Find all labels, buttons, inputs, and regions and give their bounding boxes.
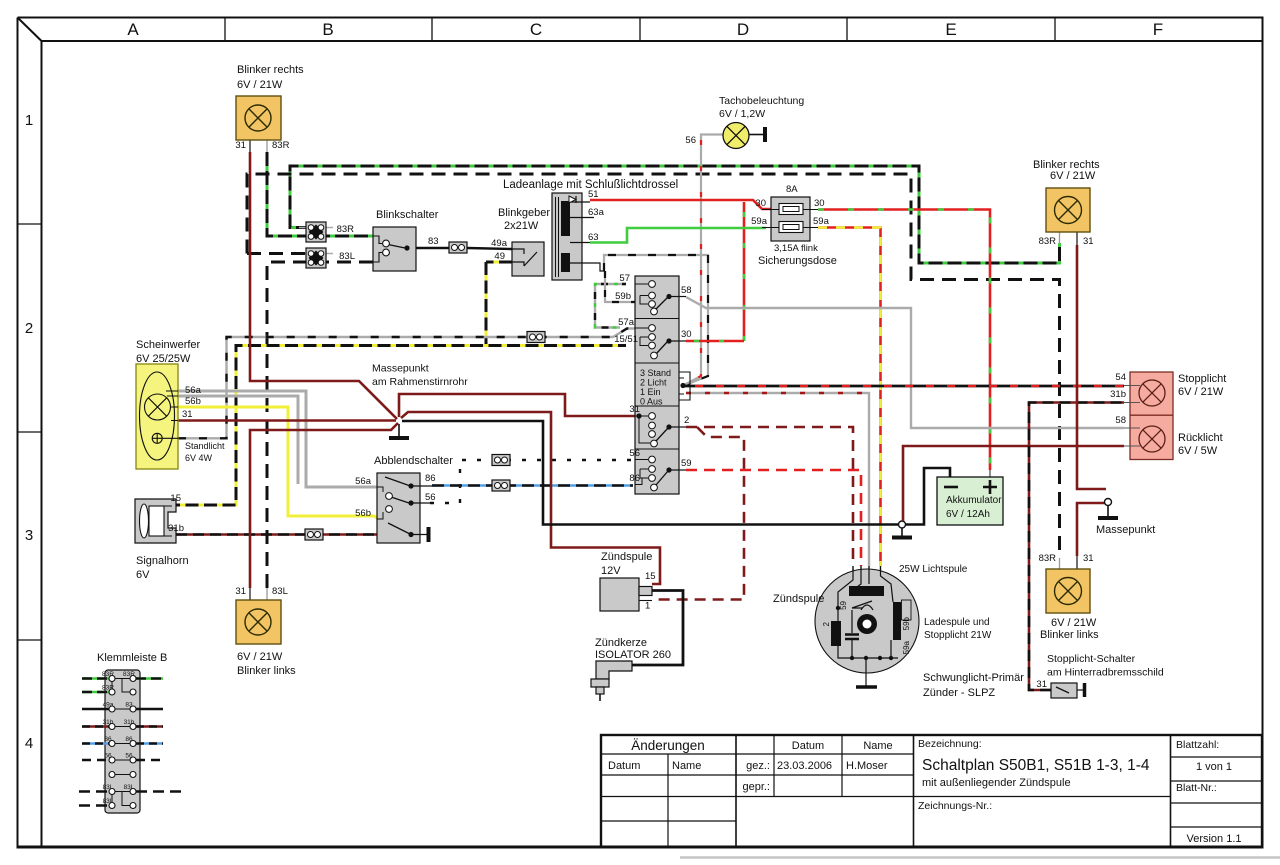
- svg-text:Zündkerze: Zündkerze: [595, 637, 647, 649]
- svg-text:25W Lichtspule: 25W Lichtspule: [899, 564, 968, 575]
- svg-text:C: C: [530, 20, 542, 39]
- svg-text:83R: 83R: [123, 671, 135, 678]
- svg-text:56a: 56a: [355, 476, 372, 487]
- svg-text:58: 58: [1115, 415, 1126, 426]
- svg-text:23.03.2006: 23.03.2006: [777, 760, 832, 772]
- svg-text:6V 25/25W: 6V 25/25W: [136, 353, 191, 365]
- svg-text:49a: 49a: [491, 238, 508, 249]
- svg-text:31: 31: [629, 404, 640, 415]
- svg-text:83R: 83R: [337, 224, 355, 235]
- svg-text:2 Licht: 2 Licht: [640, 378, 667, 388]
- svg-text:15: 15: [645, 571, 656, 582]
- svg-text:31b: 31b: [168, 523, 184, 534]
- svg-text:30: 30: [681, 329, 692, 340]
- svg-text:6V / 21W: 6V / 21W: [1051, 617, 1097, 629]
- svg-text:Blattzahl:: Blattzahl:: [1176, 739, 1219, 751]
- svg-text:2x21W: 2x21W: [504, 220, 539, 232]
- svg-text:56b: 56b: [185, 396, 201, 407]
- svg-text:Klemmleiste B: Klemmleiste B: [97, 652, 167, 664]
- svg-text:31: 31: [235, 140, 246, 151]
- svg-text:gepr.:: gepr.:: [742, 781, 770, 793]
- svg-text:83L: 83L: [339, 251, 355, 262]
- svg-text:Stopplicht: Stopplicht: [1178, 373, 1226, 385]
- svg-text:86: 86: [629, 473, 640, 484]
- svg-text:31b: 31b: [124, 719, 135, 726]
- svg-text:am Rahmenstirnrohr: am Rahmenstirnrohr: [372, 376, 468, 388]
- svg-text:86: 86: [104, 736, 112, 743]
- svg-text:59a: 59a: [751, 216, 768, 227]
- svg-text:54: 54: [1115, 372, 1126, 383]
- svg-text:83: 83: [125, 702, 133, 709]
- svg-text:51: 51: [588, 189, 599, 200]
- svg-text:Blinker links: Blinker links: [237, 665, 296, 677]
- svg-text:H.Moser: H.Moser: [846, 760, 888, 772]
- svg-text:Massepunkt: Massepunkt: [372, 363, 429, 375]
- svg-text:8A: 8A: [786, 184, 798, 195]
- svg-text:Datum: Datum: [792, 740, 824, 752]
- svg-text:gez.:: gez.:: [746, 760, 770, 772]
- svg-text:15: 15: [170, 493, 181, 504]
- svg-text:2: 2: [684, 415, 689, 426]
- svg-text:31: 31: [235, 586, 246, 597]
- svg-text:57: 57: [619, 273, 630, 284]
- svg-text:83L: 83L: [103, 798, 114, 805]
- svg-text:83R: 83R: [1039, 553, 1057, 564]
- svg-text:6V / 21W: 6V / 21W: [237, 79, 283, 91]
- svg-text:Blinkschalter: Blinkschalter: [376, 209, 439, 221]
- svg-text:31: 31: [182, 409, 193, 420]
- svg-text:59b: 59b: [902, 616, 911, 630]
- svg-text:Scheinwerfer: Scheinwerfer: [136, 339, 201, 351]
- svg-text:3: 3: [25, 527, 33, 544]
- svg-text:1: 1: [645, 601, 650, 612]
- svg-text:83L: 83L: [103, 784, 114, 791]
- svg-text:31b: 31b: [1110, 389, 1126, 400]
- svg-text:56b: 56b: [355, 508, 371, 519]
- svg-text:Abblendschalter: Abblendschalter: [374, 455, 453, 467]
- svg-text:59b: 59b: [615, 291, 631, 302]
- svg-text:31b: 31b: [103, 719, 114, 726]
- svg-text:31: 31: [1036, 679, 1047, 690]
- svg-text:4: 4: [25, 735, 33, 752]
- svg-text:56: 56: [125, 753, 133, 760]
- svg-text:83L: 83L: [124, 784, 135, 791]
- svg-text:2: 2: [25, 320, 33, 337]
- svg-text:59a: 59a: [902, 640, 911, 654]
- svg-text:Massepunkt: Massepunkt: [1096, 524, 1155, 536]
- svg-text:6V: 6V: [136, 569, 150, 581]
- svg-text:Rücklicht: Rücklicht: [1178, 432, 1223, 444]
- svg-text:ISOLATOR 260: ISOLATOR 260: [595, 649, 671, 661]
- svg-text:Stopplicht 21W: Stopplicht 21W: [924, 630, 992, 641]
- svg-text:83L: 83L: [272, 586, 288, 597]
- svg-text:Bezeichnung:: Bezeichnung:: [918, 738, 982, 750]
- svg-text:58: 58: [681, 285, 692, 296]
- svg-text:86: 86: [125, 736, 133, 743]
- svg-text:3 Stand: 3 Stand: [640, 368, 671, 378]
- svg-text:Signalhorn: Signalhorn: [136, 555, 189, 567]
- svg-text:F: F: [1153, 20, 1163, 39]
- svg-text:Zündspule: Zündspule: [773, 593, 824, 605]
- svg-text:Akkumulator: Akkumulator: [946, 495, 1002, 506]
- svg-text:Zünder - SLPZ: Zünder - SLPZ: [923, 687, 995, 699]
- svg-text:83R: 83R: [1039, 236, 1057, 247]
- svg-text:83R: 83R: [102, 671, 114, 678]
- svg-text:am Hinterradbremsschild: am Hinterradbremsschild: [1047, 667, 1164, 679]
- svg-text:B: B: [322, 20, 333, 39]
- svg-text:Blinkgeber: Blinkgeber: [498, 207, 550, 219]
- svg-text:Blinker rechts: Blinker rechts: [237, 64, 304, 76]
- svg-text:D: D: [737, 20, 749, 39]
- svg-text:63: 63: [588, 232, 599, 243]
- svg-text:83R: 83R: [272, 140, 290, 151]
- svg-text:12V: 12V: [601, 565, 621, 577]
- svg-text:6V / 12Ah: 6V / 12Ah: [946, 509, 990, 520]
- svg-text:6V / 21W: 6V / 21W: [1178, 386, 1224, 398]
- svg-text:56a: 56a: [185, 385, 202, 396]
- svg-text:2: 2: [822, 621, 831, 626]
- svg-text:56: 56: [629, 448, 640, 459]
- svg-text:6V / 21W: 6V / 21W: [237, 651, 283, 663]
- svg-text:Name: Name: [863, 740, 892, 752]
- svg-text:Zeichnungs-Nr.:: Zeichnungs-Nr.:: [918, 800, 992, 812]
- svg-text:1 von 1: 1 von 1: [1196, 761, 1232, 773]
- svg-text:56: 56: [685, 135, 696, 146]
- svg-text:56: 56: [104, 753, 112, 760]
- svg-text:6V / 5W: 6V / 5W: [1178, 445, 1218, 457]
- svg-text:31: 31: [1083, 553, 1094, 564]
- svg-text:E: E: [945, 20, 956, 39]
- svg-text:Name: Name: [672, 760, 701, 772]
- svg-text:15/51: 15/51: [614, 334, 638, 345]
- svg-text:Version 1.1: Version 1.1: [1186, 833, 1241, 845]
- svg-text:Standlicht: Standlicht: [185, 441, 225, 451]
- svg-text:Stopplicht-Schalter: Stopplicht-Schalter: [1047, 653, 1136, 665]
- svg-text:A: A: [127, 20, 139, 39]
- svg-text:6V 4W: 6V 4W: [185, 453, 213, 463]
- svg-text:0 Aus: 0 Aus: [640, 397, 663, 407]
- svg-text:59: 59: [839, 600, 848, 609]
- svg-text:49: 49: [494, 251, 505, 262]
- svg-text:6V / 1,2W: 6V / 1,2W: [719, 108, 765, 120]
- svg-text:83R: 83R: [102, 685, 114, 692]
- svg-text:30: 30: [755, 198, 766, 209]
- svg-text:Ladespule und: Ladespule und: [924, 617, 990, 628]
- svg-text:Blinker links: Blinker links: [1040, 629, 1099, 641]
- svg-text:Datum: Datum: [608, 760, 640, 772]
- svg-text:Schwunglicht-Primär: Schwunglicht-Primär: [923, 672, 1024, 684]
- svg-text:30: 30: [814, 198, 825, 209]
- svg-text:59: 59: [681, 458, 692, 469]
- svg-text:86: 86: [425, 473, 436, 484]
- svg-text:Schaltplan S50B1, S51B 1-3, 1-: Schaltplan S50B1, S51B 1-3, 1-4: [922, 757, 1150, 774]
- svg-text:1: 1: [25, 112, 33, 129]
- svg-text:6V / 21W: 6V / 21W: [1050, 170, 1096, 182]
- svg-text:1 Ein: 1 Ein: [640, 387, 661, 397]
- svg-text:59a: 59a: [813, 216, 830, 227]
- svg-text:31: 31: [1083, 236, 1094, 247]
- svg-text:63a: 63a: [588, 207, 605, 218]
- svg-text:56: 56: [425, 492, 436, 503]
- svg-text:49a: 49a: [103, 702, 114, 709]
- svg-text:83: 83: [428, 236, 439, 247]
- svg-text:Blatt-Nr.:: Blatt-Nr.:: [1176, 782, 1217, 794]
- svg-text:Änderungen: Änderungen: [631, 738, 705, 753]
- svg-text:mit außenliegender Zündspule: mit außenliegender Zündspule: [922, 777, 1071, 789]
- svg-text:Zündspule: Zündspule: [601, 551, 652, 563]
- svg-text:3,15A flink: 3,15A flink: [774, 243, 818, 254]
- svg-text:57a: 57a: [618, 317, 635, 328]
- svg-text:Sicherungsdose: Sicherungsdose: [758, 255, 837, 267]
- svg-text:Tachobeleuchtung: Tachobeleuchtung: [719, 95, 804, 107]
